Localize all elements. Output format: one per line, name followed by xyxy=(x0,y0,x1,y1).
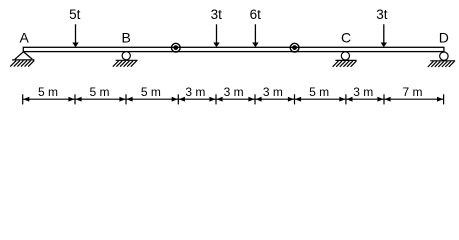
svg-text:B: B xyxy=(122,30,131,46)
svg-text:A: A xyxy=(20,30,30,46)
svg-text:6t: 6t xyxy=(250,7,262,22)
svg-text:7 m: 7 m xyxy=(402,85,422,99)
svg-text:5 m: 5 m xyxy=(38,85,58,99)
svg-text:3 m: 3 m xyxy=(224,85,244,99)
svg-text:5 m: 5 m xyxy=(309,85,329,99)
svg-text:5 m: 5 m xyxy=(89,85,109,99)
svg-text:D: D xyxy=(439,30,449,46)
svg-text:C: C xyxy=(341,30,351,46)
svg-text:3 m: 3 m xyxy=(263,85,283,99)
svg-text:3t: 3t xyxy=(211,7,223,22)
svg-text:3t: 3t xyxy=(376,7,388,22)
svg-text:3 m: 3 m xyxy=(185,85,205,99)
svg-text:3 m: 3 m xyxy=(353,85,373,99)
svg-text:5 m: 5 m xyxy=(141,85,161,99)
svg-text:5t: 5t xyxy=(69,7,81,22)
